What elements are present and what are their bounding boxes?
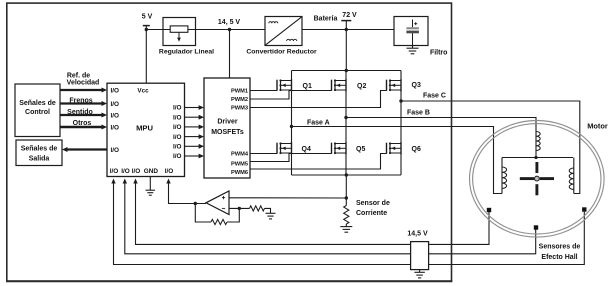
hall supply block 14,5 V [411, 242, 429, 270]
winding star bar [502, 157, 573, 159]
wire MPU I/O to driver input 1 [185, 107, 200, 109]
wire MPU I/O to driver input 6 [185, 155, 200, 157]
control signals block Se&ntilde;ales de Control [15, 84, 60, 137]
wire source rail to current sensor [345, 175, 347, 206]
junction Fase C [399, 99, 402, 102]
ground MPU GND [149, 177, 151, 191]
svg-text:Ref. de: Ref. de [67, 72, 90, 79]
junction inverting input [238, 207, 241, 210]
wire op-amp output to MPU I/O [169, 183, 207, 204]
wire Q2 drain to rail [345, 71, 347, 80]
wire MPU I/O to driver input 4 [185, 136, 200, 138]
svg-text:Regulador Lineal: Regulador Lineal [159, 49, 214, 56]
battery terminal tick [341, 20, 351, 22]
svg-text:I/O: I/O [121, 168, 130, 175]
ground filter [412, 46, 414, 49]
wire PWM3 to Q3 gate [250, 91, 387, 108]
svg-text:I/O: I/O [173, 114, 182, 121]
svg-text:I/O: I/O [173, 134, 182, 141]
svg-text:14,5 V: 14,5 V [407, 230, 428, 237]
winding phase A left coil [501, 158, 503, 194]
svg-text:Control: Control [25, 109, 50, 116]
wire Q6 source down [400, 155, 402, 176]
wire Fase C to motor winding [401, 101, 580, 194]
junction battery 72V [345, 28, 348, 31]
svg-text:PWM1: PWM1 [231, 89, 248, 95]
svg-text:Q2: Q2 [357, 83, 366, 90]
svg-text:PWM4: PWM4 [231, 152, 249, 158]
svg-text:Corriente: Corriente [356, 210, 387, 217]
svg-text:I/O: I/O [173, 144, 182, 151]
wire sense tap to op-amp noninverting input [229, 197, 346, 199]
wire bridge leg B Q2 source to Q5 drain [345, 92, 347, 143]
svg-text:Salida: Salida [29, 155, 50, 162]
svg-text:Fase B: Fase B [407, 109, 430, 116]
transistor Q1 [291, 79, 293, 92]
junction op-amp output feedback [194, 202, 197, 205]
hall sensor left [487, 208, 491, 212]
wire PWM5 to Q5 gate [250, 154, 332, 162]
svg-text:I/O: I/O [111, 88, 120, 95]
svg-text:I/O: I/O [132, 168, 141, 175]
svg-text:Filtro: Filtro [430, 49, 448, 56]
wire MPU I/O to driver input 3 [185, 126, 200, 128]
svg-text:PWM6: PWM6 [231, 170, 248, 176]
wire Q1 drain to rail [291, 71, 293, 80]
regulator U2 Regulador Lineal block [163, 18, 196, 46]
wire MPU I/O to driver input 2 [185, 116, 200, 118]
MPU block U1 [107, 83, 185, 176]
wire Q3 drain to rail [400, 71, 402, 80]
svg-text:Q6: Q6 [412, 146, 421, 153]
wire Q4 source down [291, 155, 293, 176]
ground op-amp reference [266, 212, 276, 214]
wire 72V rail converter to filter [302, 29, 394, 31]
ground hall supply [419, 270, 421, 273]
svg-text:Vcc: Vcc [137, 87, 149, 94]
transistor Q3 [400, 79, 402, 92]
transistor Q5 [345, 142, 347, 155]
svg-text:PWM2: PWM2 [231, 97, 248, 103]
wire Fase B to motor winding [346, 118, 536, 131]
svg-text:PWM3: PWM3 [231, 106, 248, 112]
winding phase B top coil [535, 131, 537, 158]
svg-text:I/O: I/O [173, 153, 182, 160]
wire PWM4 to Q4 gate [250, 153, 277, 155]
svg-text:PWM5: PWM5 [231, 162, 248, 168]
svg-text:Sensores de: Sensores de [539, 243, 581, 250]
wire hall sensor bottom to MPU I/O [125, 183, 536, 254]
svg-text:5 V: 5 V [142, 13, 153, 20]
wire arrow velocity reference to MPU [60, 89, 102, 91]
rotor cross [520, 177, 534, 180]
junction current sense tap [345, 196, 348, 199]
junction Fase B [344, 116, 347, 119]
wire hall sensor left to MPU I/O [136, 183, 490, 244]
svg-text:I/O: I/O [110, 168, 119, 175]
wire resistor to ground [265, 208, 271, 213]
svg-text:Driver: Driver [217, 119, 238, 126]
svg-text:Señales de: Señales de [21, 145, 58, 152]
buck converter block Convertidor Reductor [265, 17, 302, 46]
ground current sensor [345, 224, 347, 227]
wire Q5 source down [345, 155, 347, 176]
svg-text:I/O: I/O [111, 125, 120, 132]
controller enclosure box [7, 3, 452, 281]
wire feedback down [195, 204, 211, 223]
svg-text:I/O: I/O [111, 147, 120, 154]
svg-text:Fase A: Fase A [307, 119, 330, 126]
wire inverting input to resistor [229, 207, 250, 209]
wire MPU I/O to driver input 5 [185, 145, 200, 147]
wire feedback to inverting input [227, 208, 239, 222]
svg-text:Motor: Motor [587, 121, 608, 130]
svg-text:Fase C: Fase C [423, 92, 446, 99]
wire PWM6 to Q6 gate [250, 154, 387, 170]
svg-text:I/O: I/O [111, 101, 120, 108]
wire PWM2 to Q2 gate [250, 91, 332, 100]
op-amp U3 [206, 191, 229, 215]
wire bridge leg A Q1 source to Q4 drain [291, 92, 293, 143]
junction top rail [345, 69, 348, 72]
wire 5V node to regulator [146, 29, 163, 31]
wire arrow Otros to MPU [60, 126, 102, 129]
wire 72V bridge top rail [292, 70, 402, 72]
svg-text:GND: GND [144, 168, 159, 175]
wire 72V down to bridge rail [345, 30, 347, 71]
wire PWM1 to Q1 gate [250, 90, 277, 92]
filter block Filtro [394, 17, 428, 46]
junction 14.5V [228, 28, 231, 31]
resistor inverting to ground [250, 206, 265, 211]
svg-text:I/O: I/O [165, 168, 174, 175]
output signals block Se&ntilde;ales de Salida [16, 140, 62, 166]
svg-text:I/O: I/O [173, 105, 182, 112]
junction Fase A [290, 125, 293, 128]
svg-text:Sensor de: Sensor de [356, 200, 390, 207]
motor stator outer ring [470, 121, 605, 238]
svg-text:MOSFETs: MOSFETs [211, 129, 244, 136]
junction 5V [145, 28, 148, 31]
resistor feedback [211, 219, 227, 224]
wire 14.5V rail regulator to converter [196, 29, 266, 31]
junction source rail [345, 173, 348, 176]
svg-text:I/O: I/O [173, 124, 182, 131]
svg-text:Efecto Hall: Efecto Hall [541, 254, 577, 261]
svg-text:Q1: Q1 [303, 83, 312, 90]
wire bridge leg C Q3 source to Q6 drain [400, 92, 402, 143]
svg-text:Convertidor Reductor: Convertidor Reductor [246, 49, 317, 56]
transistor Q6 [400, 142, 402, 155]
svg-text:Q4: Q4 [302, 146, 311, 153]
resistor current sensor [344, 206, 349, 224]
junction star point [534, 156, 537, 159]
svg-text:Velocidad: Velocidad [67, 80, 100, 87]
wire 14.5V down to driver supply pin [229, 30, 231, 79]
wire Fase A to motor winding [292, 127, 503, 194]
wire hall sensor right to MPU I/O [114, 183, 585, 265]
transistor Q4 [291, 142, 293, 155]
transistor Q2 [345, 79, 347, 92]
wire arrow MPU to output signals [67, 148, 107, 150]
svg-text:I/O: I/O [111, 113, 120, 120]
wire bottom source rail [292, 174, 402, 176]
svg-text:Q5: Q5 [356, 146, 365, 153]
wire arrow Sentido to MPU [60, 114, 102, 116]
wire arrow Frenos to MPU [60, 102, 102, 104]
winding phase C right coil [573, 158, 575, 194]
hall sensor bottom [534, 225, 538, 229]
gate driver block Driver MOSFETs [204, 78, 250, 178]
hall sensor right [582, 207, 586, 211]
svg-text:MPU: MPU [136, 123, 153, 132]
svg-text:Señales de: Señales de [19, 100, 56, 107]
svg-text:14, 5 V: 14, 5 V [218, 19, 241, 26]
svg-text:Batería: Batería [314, 15, 338, 22]
motor stator inner ring [473, 124, 601, 234]
wire 5V node down to MPU Vcc pin [145, 26, 147, 84]
svg-text:72 V: 72 V [342, 12, 357, 19]
svg-text:Q3: Q3 [412, 82, 421, 89]
node 5V terminal tick [143, 25, 150, 27]
